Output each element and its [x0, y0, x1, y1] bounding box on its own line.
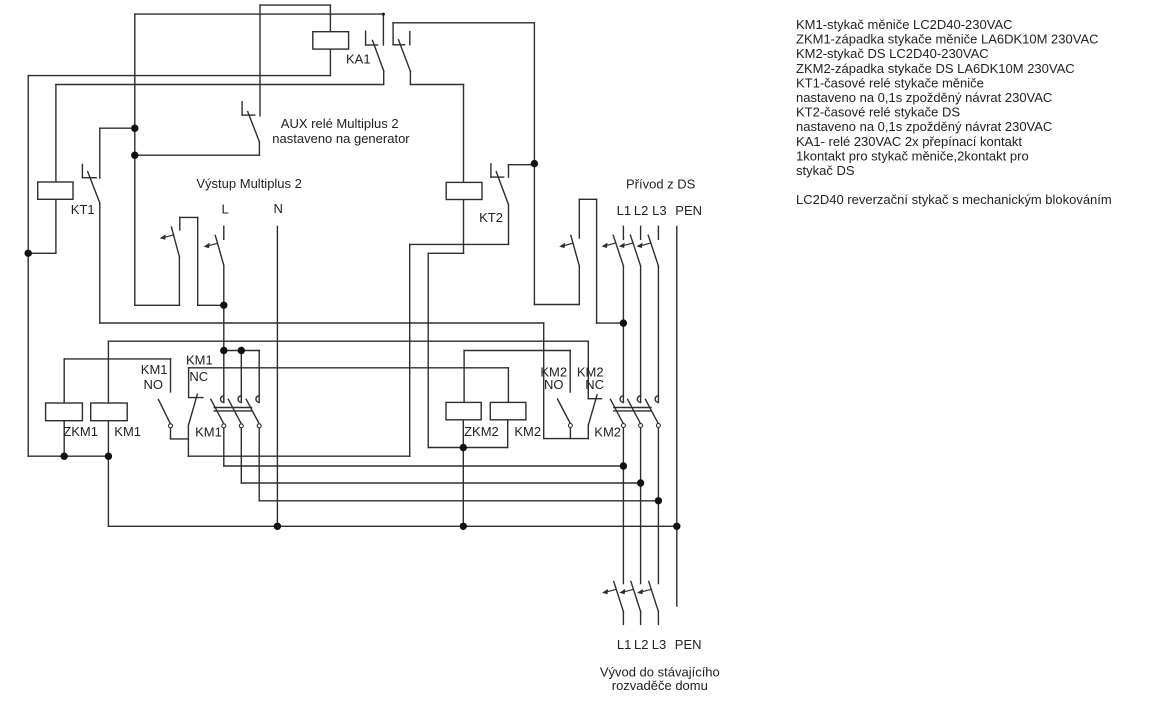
- svg-text:ZKM2-západka stykače DS LA6DK1: ZKM2-západka stykače DS LA6DK10M 230VAC: [796, 61, 1075, 76]
- svg-text:L3: L3: [652, 637, 666, 652]
- svg-text:ZKM2: ZKM2: [464, 424, 499, 439]
- svg-text:LC2D40 reverzační stykač s mec: LC2D40 reverzační stykač s mechanickým b…: [796, 192, 1112, 207]
- svg-text:ZKM1: ZKM1: [63, 424, 98, 439]
- svg-text:L1: L1: [617, 637, 631, 652]
- svg-text:KT1: KT1: [71, 202, 95, 217]
- svg-text:nastaveno na generator: nastaveno na generator: [272, 131, 410, 146]
- svg-text:KM1-stykač měniče LC2D40-230VA: KM1-stykač měniče LC2D40-230VAC: [796, 17, 1013, 32]
- svg-text:NC: NC: [585, 377, 604, 392]
- svg-text:Přívod z DS: Přívod z DS: [626, 176, 696, 191]
- svg-text:KM1: KM1: [186, 352, 213, 367]
- svg-text:KM2: KM2: [594, 425, 621, 440]
- svg-text:L2: L2: [634, 637, 648, 652]
- svg-text:PEN: PEN: [675, 203, 702, 218]
- svg-text:KA1: KA1: [346, 51, 371, 66]
- svg-text:KM1: KM1: [141, 362, 168, 377]
- svg-text:NC: NC: [189, 369, 208, 384]
- svg-text:KT1-časové relé stykače měniče: KT1-časové relé stykače měniče: [796, 75, 984, 90]
- svg-text:NO: NO: [144, 377, 164, 392]
- svg-text:L1: L1: [617, 203, 631, 218]
- svg-text:KM2: KM2: [514, 424, 541, 439]
- svg-text:KA1- relé 230VAC 2x přepínací: KA1- relé 230VAC 2x přepínací kontakt: [796, 134, 1022, 149]
- svg-text:KM2-stykač DS LC2D40-230VAC: KM2-stykač DS LC2D40-230VAC: [796, 46, 989, 61]
- svg-text:Výstup Multiplus 2: Výstup Multiplus 2: [196, 176, 302, 191]
- svg-text:nastaveno na 0,1s zpožděný náv: nastaveno na 0,1s zpožděný návrat 230VAC: [796, 90, 1052, 105]
- svg-text:1kontakt pro stykač měniče,2ko: 1kontakt pro stykač měniče,2kontakt pro: [796, 148, 1029, 163]
- svg-text:stykač DS: stykač DS: [796, 163, 855, 178]
- svg-text:KM1: KM1: [114, 424, 141, 439]
- svg-text:L: L: [222, 201, 229, 216]
- svg-text:NO: NO: [544, 377, 564, 392]
- svg-text:nastaveno na 0,1s zpožděný náv: nastaveno na 0,1s zpožděný návrat 230VAC: [796, 119, 1052, 134]
- svg-text:rozvaděče domu: rozvaděče domu: [612, 678, 708, 693]
- svg-text:KT2-časové relé stykače DS: KT2-časové relé stykače DS: [796, 105, 960, 120]
- svg-text:ZKM1-západka stykače měniče LA: ZKM1-západka stykače měniče LA6DK10M 230…: [796, 32, 1099, 47]
- svg-text:KT2: KT2: [479, 210, 503, 225]
- svg-text:L2: L2: [634, 203, 648, 218]
- svg-text:AUX relé Multiplus 2: AUX relé Multiplus 2: [281, 116, 399, 131]
- svg-text:L3: L3: [652, 203, 666, 218]
- svg-text:PEN: PEN: [675, 637, 702, 652]
- svg-text:KM1: KM1: [195, 425, 222, 440]
- svg-text:N: N: [274, 201, 283, 216]
